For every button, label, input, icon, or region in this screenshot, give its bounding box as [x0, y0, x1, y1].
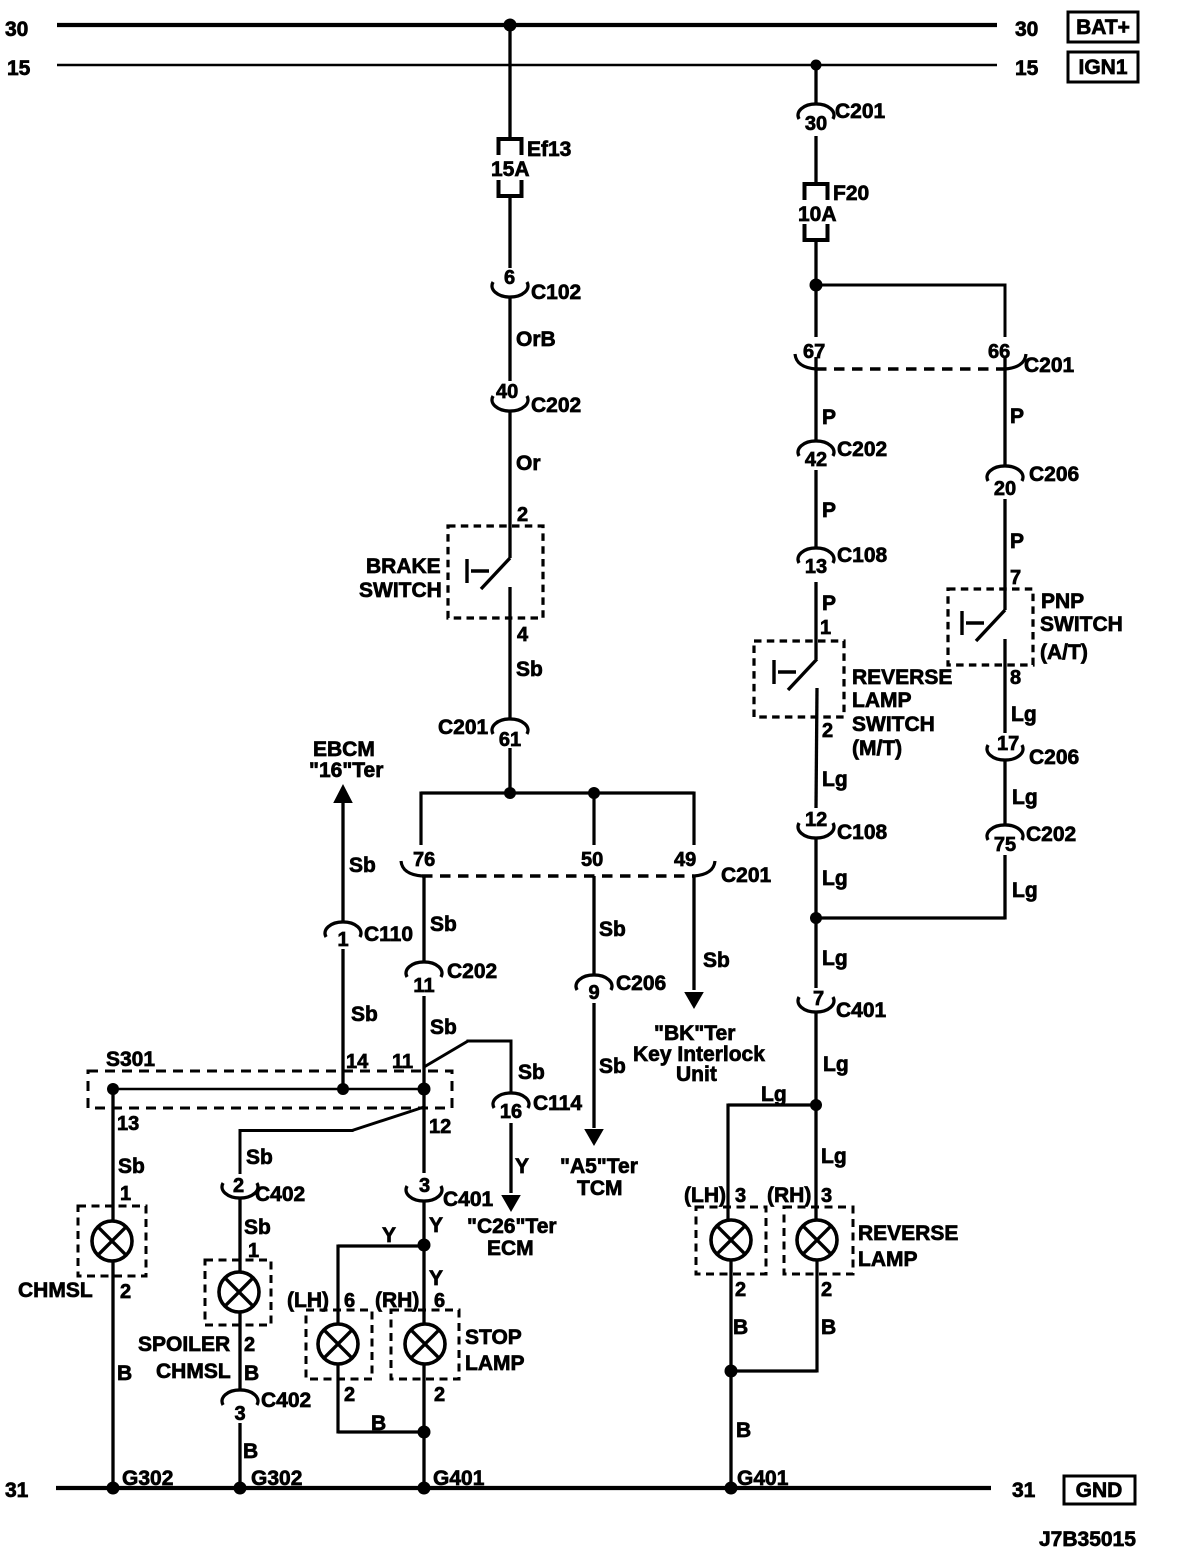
- wire Lg junction to C401-7: [816, 918, 848, 988]
- wire Y to LH stop lamp: [338, 1224, 424, 1324]
- svg-text:LAMP: LAMP: [852, 689, 912, 712]
- svg-text:Lg: Lg: [821, 1145, 847, 1168]
- connector C206 pin 9: [576, 972, 666, 1004]
- wire Lg to LH reverse lamp: [728, 1083, 816, 1220]
- BAT+ terminal box: [1068, 12, 1138, 42]
- svg-text:1: 1: [820, 617, 831, 639]
- wire Lg PNP pin 8 to C206-17: [1005, 639, 1037, 733]
- PNP switch contact: [962, 610, 1005, 641]
- label REVERSE LAMP SWITCH (M/T): [852, 666, 952, 760]
- svg-text:Sb: Sb: [244, 1216, 271, 1239]
- svg-text:15: 15: [7, 57, 31, 80]
- LH stop lamp: [318, 1324, 358, 1364]
- arrow to key interlock unit: [684, 992, 704, 1009]
- wire Or to brake switch pin 2: [510, 413, 541, 559]
- svg-text:Sb: Sb: [703, 949, 730, 972]
- wire Sb C202-11 to splice S301: [424, 996, 457, 1089]
- svg-text:C202: C202: [1026, 823, 1076, 846]
- svg-text:C202: C202: [837, 438, 887, 461]
- svg-text:G302: G302: [122, 1467, 173, 1490]
- wire P pin66 to C206-20: [1005, 357, 1024, 466]
- wire P C108-13 to reverse lamp switch pin 1: [816, 582, 836, 659]
- label Sb spoiler top: [246, 1146, 273, 1169]
- stop lamp pin labels 6: [287, 1289, 445, 1312]
- wire bus15 to C201-30: [814, 65, 817, 104]
- svg-text:(LH): (LH): [684, 1184, 726, 1207]
- PNP switch box: [948, 589, 1033, 665]
- svg-text:Y: Y: [429, 1267, 443, 1290]
- wire P pin67 to C202-42: [816, 357, 836, 441]
- connector C402 pin 2: [222, 1175, 305, 1206]
- junction on bus 30: [504, 19, 517, 32]
- svg-text:"BK"Ter: "BK"Ter: [654, 1022, 735, 1045]
- svg-text:C401: C401: [443, 1188, 494, 1211]
- spoiler CHMSL lamp: [219, 1272, 259, 1312]
- arrow to TCM: [584, 1129, 604, 1146]
- svg-text:TCM: TCM: [577, 1177, 623, 1200]
- junction dot rail center: [504, 787, 516, 799]
- svg-text:Ef13: Ef13: [527, 138, 571, 161]
- wire Sb C201-49 to key interlock arrow: [694, 876, 730, 990]
- label SPOILER CHMSL: [138, 1333, 231, 1383]
- svg-text:C401: C401: [836, 999, 887, 1022]
- CHMSL lamp box: [78, 1206, 146, 1276]
- svg-text:2: 2: [822, 720, 833, 742]
- wire B RH reverse lamp: [731, 1260, 836, 1373]
- connector C402 pin 3: [222, 1389, 311, 1425]
- svg-text:Lg: Lg: [823, 1053, 849, 1076]
- wire S301-11 to C114 (diagonal): [424, 1040, 511, 1094]
- fuse Ef13 15A: [491, 137, 571, 198]
- svg-text:3: 3: [735, 1185, 746, 1207]
- S301 pin labels: [117, 1051, 451, 1138]
- label REVERSE LAMP: [858, 1222, 958, 1271]
- CHMSL lamp: [92, 1221, 132, 1261]
- wire S301-12 to spoiler (diagonal): [240, 1107, 424, 1174]
- connector C206 pin 17: [987, 733, 1079, 769]
- diagram id J7B35015: [1039, 1528, 1136, 1551]
- wire fuse F20 to split junction: [814, 240, 817, 285]
- svg-text:66: 66: [988, 341, 1010, 363]
- svg-text:STOP: STOP: [465, 1326, 522, 1349]
- connector C201 dashed body right: [816, 367, 1005, 370]
- svg-text:Y: Y: [429, 1214, 443, 1237]
- connector C201 pin 61: [438, 716, 528, 751]
- wire B LH stop lamp: [338, 1364, 424, 1435]
- node 31 bus (GND): [5, 1479, 1036, 1502]
- svg-text:50: 50: [581, 849, 603, 871]
- reverse lamp switch contact: [774, 659, 817, 690]
- svg-text:11: 11: [392, 1051, 413, 1073]
- label C26 Ter ECM: [467, 1215, 557, 1260]
- svg-text:15: 15: [1015, 57, 1039, 80]
- svg-text:4: 4: [517, 624, 529, 646]
- wire Sb to TCM arrow: [594, 1003, 626, 1128]
- wire Y to ECM arrow: [511, 1123, 529, 1193]
- svg-text:LAMP: LAMP: [858, 1248, 918, 1271]
- svg-text:B: B: [243, 1440, 258, 1463]
- fuse F20 10A: [798, 182, 869, 242]
- label BK Ter Key Interlock Unit: [633, 1022, 765, 1086]
- svg-text:(RH): (RH): [767, 1184, 811, 1207]
- svg-text:Lg: Lg: [761, 1083, 787, 1106]
- svg-text:REVERSE: REVERSE: [852, 666, 952, 689]
- svg-text:Unit: Unit: [676, 1063, 717, 1086]
- wire to pin 67: [814, 285, 817, 337]
- RH reverse lamp: [797, 1220, 837, 1260]
- svg-text:Lg: Lg: [1011, 703, 1037, 726]
- wire brake switch pin 4 Sb: [510, 587, 543, 719]
- connector C202 pin 75: [987, 823, 1076, 856]
- svg-text:Y: Y: [382, 1224, 396, 1247]
- svg-text:Lg: Lg: [1012, 879, 1038, 902]
- svg-text:12: 12: [429, 1116, 451, 1138]
- svg-text:Lg: Lg: [822, 947, 848, 970]
- wire Sb to EBCM arrow: [343, 803, 376, 922]
- wire B RH stop lamp to ground: [424, 1364, 445, 1488]
- splice S301 box: [88, 1048, 452, 1108]
- label PNP SWITCH (A/T): [1040, 590, 1123, 664]
- svg-text:Y: Y: [515, 1155, 529, 1178]
- svg-text:SWITCH: SWITCH: [852, 713, 935, 736]
- svg-text:Sb: Sb: [430, 913, 457, 936]
- svg-text:B: B: [821, 1316, 836, 1339]
- svg-text:G401: G401: [737, 1467, 789, 1490]
- svg-text:15A: 15A: [491, 158, 530, 181]
- RH stop lamp box: [391, 1310, 459, 1379]
- svg-text:C201: C201: [438, 716, 489, 739]
- svg-text:75: 75: [994, 834, 1016, 856]
- svg-text:11: 11: [413, 975, 434, 997]
- svg-text:C206: C206: [1029, 746, 1079, 769]
- svg-text:REVERSE: REVERSE: [858, 1222, 958, 1245]
- svg-text:C108: C108: [837, 821, 888, 844]
- node 30 bus (BAT+): [5, 18, 1038, 41]
- label A5 Ter TCM: [560, 1155, 638, 1200]
- connector C201 pin 67: [795, 341, 825, 369]
- wire B reverse to ground: [731, 1371, 751, 1488]
- svg-text:SWITCH: SWITCH: [1040, 613, 1123, 636]
- connector C201 dashed body: [422, 874, 694, 877]
- svg-text:B: B: [736, 1419, 751, 1442]
- svg-text:61: 61: [499, 729, 521, 751]
- connector C201 pin 66: [988, 341, 1026, 369]
- svg-text:Lg: Lg: [1012, 786, 1038, 809]
- label CHMSL: [18, 1279, 93, 1302]
- ground G401 stop: [418, 1467, 485, 1495]
- wire distribution rail: [421, 792, 694, 846]
- svg-text:P: P: [1010, 405, 1024, 428]
- ground G302 spoiler: [234, 1467, 303, 1495]
- svg-text:J7B35015: J7B35015: [1039, 1528, 1136, 1551]
- wire Lg C206-17 to C202-75: [1005, 762, 1038, 826]
- arrow to EBCM: [333, 784, 353, 803]
- svg-text:Sb: Sb: [516, 658, 543, 681]
- connector C110 pin 1: [325, 922, 413, 951]
- connector C401 pin 7: [798, 988, 887, 1022]
- svg-text:3: 3: [234, 1403, 245, 1425]
- svg-text:9: 9: [588, 982, 599, 1004]
- svg-text:G401: G401: [433, 1467, 485, 1490]
- wire Y to RH stop lamp: [424, 1245, 443, 1324]
- svg-text:67: 67: [803, 341, 825, 363]
- wire Y to stop junction: [424, 1203, 443, 1246]
- svg-text:2: 2: [120, 1281, 131, 1303]
- svg-text:C108: C108: [837, 544, 888, 567]
- svg-text:31: 31: [5, 1479, 29, 1502]
- wire bus30 to fuse Ef13: [508, 25, 511, 139]
- svg-text:CHMSL: CHMSL: [18, 1279, 93, 1302]
- svg-text:IGN1: IGN1: [1078, 56, 1127, 79]
- svg-text:2: 2: [434, 1384, 445, 1406]
- svg-text:B: B: [733, 1316, 748, 1339]
- wire Lg C202-75 to M/T junction: [816, 855, 1038, 920]
- connector C401 pin 3: [406, 1175, 494, 1211]
- wire Lg switch pin 2 to C108-12: [816, 688, 848, 808]
- svg-text:Sb: Sb: [599, 1055, 626, 1078]
- connector C201 pin 49: [674, 849, 715, 876]
- wire P C206-20 to PNP switch pin 7: [1005, 499, 1024, 610]
- svg-text:40: 40: [496, 381, 518, 403]
- svg-text:30: 30: [5, 18, 28, 41]
- junction on bus 15: [811, 60, 822, 71]
- wire C201-30 to fuse F20: [814, 136, 817, 184]
- brake switch box: [448, 526, 543, 618]
- svg-text:B: B: [371, 1412, 386, 1435]
- svg-text:3: 3: [419, 1175, 430, 1197]
- svg-text:PNP: PNP: [1041, 590, 1084, 613]
- svg-text:12: 12: [805, 809, 827, 831]
- connector C202 pin 40: [492, 381, 581, 417]
- label C201 right of pin 49: [721, 864, 772, 887]
- RH reverse lamp box: [784, 1207, 853, 1274]
- svg-text:C202: C202: [447, 960, 497, 983]
- svg-text:Sb: Sb: [599, 918, 626, 941]
- svg-text:Lg: Lg: [822, 768, 848, 791]
- brake switch contact: [467, 558, 510, 589]
- svg-text:C201: C201: [721, 864, 772, 887]
- svg-text:S301: S301: [106, 1048, 155, 1071]
- svg-text:C201: C201: [1024, 354, 1075, 377]
- svg-text:C202: C202: [531, 394, 581, 417]
- junction dot stop Y: [418, 1239, 431, 1252]
- svg-text:C402: C402: [255, 1183, 305, 1206]
- connector C108 pin 12: [798, 809, 888, 844]
- connector C202 pin 11: [406, 960, 497, 997]
- svg-text:G302: G302: [251, 1467, 302, 1490]
- svg-text:P: P: [822, 499, 836, 522]
- LH stop lamp box: [306, 1310, 372, 1379]
- svg-text:C206: C206: [616, 972, 666, 995]
- svg-text:2: 2: [244, 1334, 255, 1356]
- wire B LH reverse lamp: [731, 1260, 748, 1371]
- RH stop lamp: [405, 1324, 445, 1364]
- junction dot S301 left: [107, 1083, 119, 1095]
- wire Lg C108-12 to M/T junction: [816, 840, 848, 919]
- svg-text:P: P: [822, 592, 836, 615]
- svg-text:2: 2: [233, 1175, 244, 1197]
- connector C201 pin 76: [401, 849, 435, 876]
- svg-text:C402: C402: [261, 1389, 311, 1412]
- svg-text:(M/T): (M/T): [852, 737, 902, 760]
- svg-text:C114: C114: [533, 1092, 582, 1115]
- wire Sb pin76 to C202-11: [424, 877, 457, 962]
- wire fuse Ef13 to connector C102: [508, 196, 511, 268]
- svg-text:Sb: Sb: [246, 1146, 273, 1169]
- svg-text:2: 2: [344, 1384, 355, 1406]
- label EBCM 16 Ter: [309, 738, 383, 782]
- IGN1 terminal box: [1068, 52, 1138, 82]
- wire P C202-42 to C108-13: [816, 470, 836, 548]
- splice S301 rail: [113, 1088, 424, 1091]
- junction dot reverse split: [810, 1099, 822, 1111]
- svg-text:(A/T): (A/T): [1040, 641, 1088, 664]
- reverse lamp pin labels 3: [684, 1184, 832, 1207]
- svg-text:B: B: [117, 1362, 132, 1385]
- svg-text:LAMP: LAMP: [465, 1352, 525, 1375]
- svg-text:CHMSL: CHMSL: [156, 1360, 231, 1383]
- junction dot rail at 50: [588, 787, 600, 799]
- wire Sb to spoiler lamp: [240, 1200, 271, 1273]
- svg-text:14: 14: [346, 1051, 369, 1073]
- svg-text:17: 17: [997, 733, 1019, 755]
- junction dot S301 main: [418, 1083, 431, 1096]
- wire B spoiler to C402-3: [240, 1312, 259, 1390]
- svg-text:Sb: Sb: [430, 1016, 457, 1039]
- svg-text:EBCM: EBCM: [313, 738, 375, 761]
- svg-text:BRAKE: BRAKE: [366, 555, 441, 578]
- svg-text:30: 30: [805, 113, 827, 135]
- wire Sb S301-13 to CHMSL: [113, 1089, 145, 1221]
- LH reverse lamp: [711, 1220, 751, 1260]
- wire Sb S301-12 to C401-3: [422, 1089, 425, 1173]
- label BRAKE SWITCH: [359, 555, 442, 602]
- svg-text:"A5"Ter: "A5"Ter: [560, 1155, 638, 1178]
- junction dot A/T-M/T merge: [810, 912, 822, 924]
- ground G302 CHMSL: [107, 1467, 174, 1495]
- connector C202 pin 42: [798, 438, 887, 471]
- wire C201-61 to splice rail: [508, 748, 511, 793]
- svg-text:Sb: Sb: [351, 1003, 378, 1026]
- wire B CHMSL to ground: [113, 1261, 132, 1488]
- connector C201 pin 30: [798, 100, 886, 135]
- svg-text:P: P: [822, 406, 836, 429]
- svg-text:OrB: OrB: [516, 328, 556, 351]
- svg-text:49: 49: [674, 849, 696, 871]
- wire Lg C401-7 to reverse lamp junction: [816, 1014, 849, 1106]
- wire Sb C201-50 to C206-9: [594, 876, 626, 975]
- svg-text:42: 42: [805, 449, 827, 471]
- junction dot reverse B: [725, 1365, 738, 1378]
- svg-text:13: 13: [805, 556, 827, 578]
- svg-text:Sb: Sb: [349, 854, 376, 877]
- connector C201 pin 50: [581, 849, 603, 871]
- svg-text:2: 2: [517, 504, 528, 526]
- junction dot stop B: [418, 1426, 431, 1439]
- svg-text:2: 2: [735, 1279, 746, 1301]
- svg-text:30: 30: [1015, 18, 1038, 41]
- svg-text:20: 20: [994, 478, 1016, 500]
- connector C108 pin 13: [798, 544, 888, 578]
- svg-text:8: 8: [1010, 667, 1021, 689]
- wire Lg to RH reverse lamp: [816, 1105, 847, 1220]
- wire B spoiler to ground: [240, 1423, 258, 1488]
- svg-text:C201: C201: [835, 100, 886, 123]
- node 15 bus (IGN1): [7, 57, 1039, 80]
- reverse lamp switch box: [754, 641, 844, 717]
- connector C102 pin 6: [492, 267, 581, 304]
- svg-text:"16"Ter: "16"Ter: [309, 759, 383, 782]
- svg-text:7: 7: [1010, 567, 1021, 589]
- svg-text:BAT+: BAT+: [1076, 16, 1130, 39]
- svg-text:SPOILER: SPOILER: [138, 1333, 230, 1356]
- connector C206 pin 20: [987, 463, 1079, 500]
- svg-text:3: 3: [821, 1185, 832, 1207]
- ground G401 reverse: [725, 1467, 789, 1495]
- svg-text:10A: 10A: [798, 203, 837, 226]
- label C201 right of pin 66: [1024, 354, 1075, 377]
- label Sb at C114 drop: [518, 1061, 545, 1084]
- svg-text:6: 6: [504, 267, 515, 289]
- svg-text:P: P: [1010, 530, 1024, 553]
- svg-text:Lg: Lg: [822, 867, 848, 890]
- connector C114 pin 16: [493, 1092, 582, 1123]
- junction dot S301 EBCM: [337, 1083, 349, 1095]
- wire to pin 66: [816, 284, 1005, 338]
- junction dot F20 split: [810, 279, 823, 292]
- svg-text:"C26"Ter: "C26"Ter: [467, 1215, 557, 1238]
- label STOP LAMP: [465, 1326, 525, 1375]
- svg-text:Or: Or: [516, 452, 541, 475]
- svg-text:Sb: Sb: [518, 1061, 545, 1084]
- svg-text:76: 76: [413, 849, 435, 871]
- svg-text:GND: GND: [1076, 1479, 1123, 1502]
- svg-text:1: 1: [120, 1183, 131, 1205]
- svg-text:13: 13: [117, 1113, 139, 1135]
- svg-text:C110: C110: [364, 923, 413, 946]
- wire Sb C110 to splice S301: [343, 949, 378, 1089]
- svg-text:C206: C206: [1029, 463, 1079, 486]
- LH reverse lamp box: [696, 1207, 766, 1274]
- svg-text:SWITCH: SWITCH: [359, 579, 442, 602]
- svg-text:16: 16: [500, 1101, 522, 1123]
- svg-text:B: B: [244, 1362, 259, 1385]
- GND terminal box: [1064, 1476, 1135, 1504]
- svg-text:7: 7: [813, 988, 824, 1010]
- spoiler lamp box: [205, 1260, 271, 1325]
- svg-text:2: 2: [821, 1279, 832, 1301]
- svg-text:ECM: ECM: [487, 1237, 534, 1260]
- svg-text:Sb: Sb: [118, 1155, 145, 1178]
- svg-text:F20: F20: [833, 182, 869, 205]
- svg-text:31: 31: [1012, 1479, 1036, 1502]
- arrow to ECM: [501, 1195, 521, 1212]
- svg-text:1: 1: [337, 929, 348, 951]
- wire OrB: [510, 299, 556, 382]
- svg-text:C102: C102: [531, 281, 581, 304]
